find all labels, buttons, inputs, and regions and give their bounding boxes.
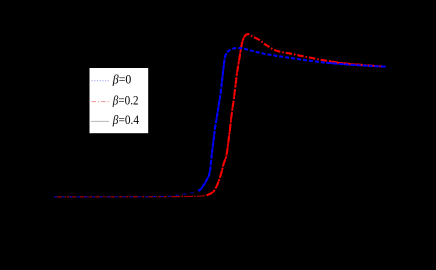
- curve beta=0 main (blue dotted): [199, 48, 387, 191]
- legend sample line beta=0.4 (gray solid): [91, 120, 109, 122]
- curve beta=0 tail underlay (near-solid blue tail): [326, 63, 386, 67]
- curve beta=0 baseline segment (dark blue dots over red flat): [54, 191, 199, 197]
- curve beta=0.2 baseline segment (dark red dash-dot, left flat part): [54, 196, 205, 197]
- svg-text:β=0.2: β=0.2: [112, 93, 139, 107]
- curve beta=0.2 tail underlay (near-solid red tail): [330, 61, 382, 66]
- curve beta=0 steep underlay (solid blue fill between dashes): [199, 51, 229, 191]
- legend box: [90, 68, 149, 133]
- svg-text:β=0: β=0: [112, 73, 131, 87]
- curve beta=0.2 steep underlay (solid red fill between dashes): [207, 37, 245, 195]
- legend sample line beta=0 (blue dotted): [92, 80, 110, 82]
- svg-text:β=0.4: β=0.4: [112, 113, 140, 127]
- curve beta=0.2 main (red dash-dot): [207, 34, 383, 195]
- legend sample line beta=0.2 (red dashed): [92, 101, 110, 103]
